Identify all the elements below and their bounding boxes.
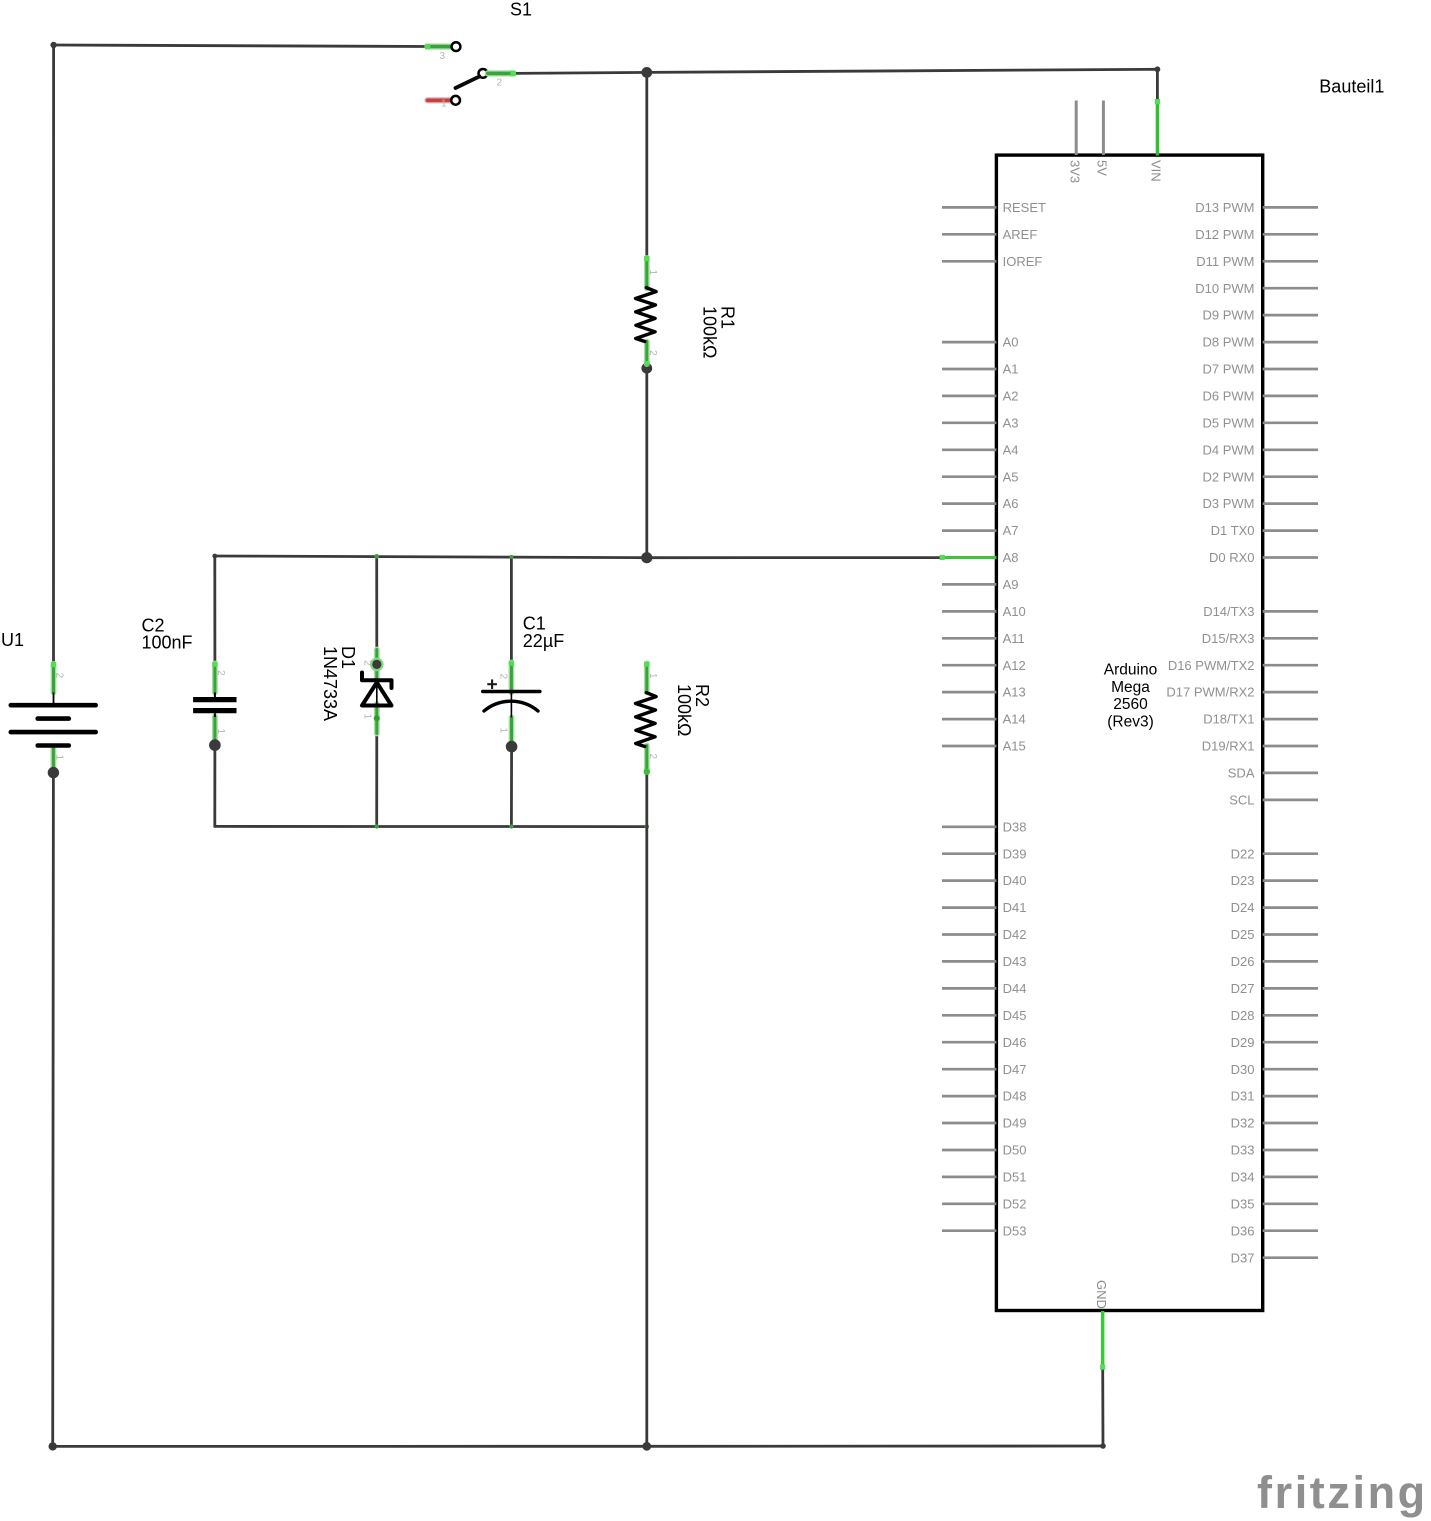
diode D1 pin 1 leg <box>374 704 380 734</box>
pin VIN stub (connected) <box>1155 99 1160 156</box>
node bendpoint at VIN riser <box>1155 66 1161 72</box>
pin label 3V3 <box>1068 160 1083 183</box>
svg-text:1: 1 <box>215 729 226 735</box>
pin D30 <box>1231 1062 1318 1077</box>
pin D51 <box>942 1170 1026 1185</box>
diode D1 pin 2 leg <box>374 650 380 680</box>
svg-text:AREF: AREF <box>1003 227 1038 242</box>
pin D33 <box>1231 1143 1318 1158</box>
svg-text:D12 PWM: D12 PWM <box>1195 227 1254 242</box>
svg-text:D33: D33 <box>1231 1143 1255 1158</box>
svg-text:D8 PWM: D8 PWM <box>1203 335 1255 350</box>
svg-text:A11: A11 <box>1003 631 1025 646</box>
pin D46 <box>942 1035 1026 1050</box>
svg-text:A1: A1 <box>1003 362 1019 377</box>
pin D45 <box>942 1008 1026 1023</box>
wire C2 bottom branch <box>213 745 216 826</box>
svg-text:A2: A2 <box>1003 389 1019 404</box>
pin D53 <box>942 1223 1026 1238</box>
svg-text:A15: A15 <box>1003 739 1026 754</box>
pin D43 <box>942 954 1026 969</box>
svg-text:1N4733A: 1N4733A <box>320 646 340 721</box>
pin label GND <box>1094 1280 1109 1309</box>
svg-text:A4: A4 <box>1003 442 1019 457</box>
node bottom bus junction R2 <box>642 1442 651 1451</box>
pin D27 <box>1231 981 1318 996</box>
wire C2 top branch <box>213 556 216 664</box>
pin SDA <box>1228 766 1318 781</box>
svg-text:1: 1 <box>647 673 658 679</box>
pin D18/TX1 <box>1203 712 1318 727</box>
label Bauteil1 <box>1319 77 1384 97</box>
diode D1 (zener) <box>362 673 392 706</box>
capacitor C2 pin 2 leg <box>212 662 217 693</box>
pin label 5V <box>1095 160 1110 176</box>
svg-text:1: 1 <box>54 755 65 761</box>
switch S1 pin 2 leg <box>488 71 516 76</box>
svg-text:D24: D24 <box>1231 900 1255 915</box>
svg-text:1: 1 <box>441 99 447 110</box>
label C1 22uF <box>523 614 564 651</box>
pin number 2 of C2 <box>215 670 226 676</box>
svg-text:R1: R1 <box>718 306 738 329</box>
svg-text:D36: D36 <box>1231 1223 1255 1238</box>
wire GND riser <box>1101 1367 1104 1446</box>
svg-text:D1 TX0: D1 TX0 <box>1211 523 1255 538</box>
svg-text:D4 PWM: D4 PWM <box>1203 442 1255 457</box>
pin number 1 of R2 <box>647 673 658 679</box>
resistor R2 <box>636 693 657 747</box>
svg-text:D43: D43 <box>1003 954 1027 969</box>
pin label VIN <box>1149 160 1164 182</box>
pin A1 <box>942 362 1019 377</box>
svg-text:A9: A9 <box>1003 577 1019 592</box>
wire R2 bottom long vertical <box>645 772 648 1447</box>
pin D48 <box>942 1089 1026 1104</box>
svg-text:A5: A5 <box>1003 469 1019 484</box>
pin D14/TX3 <box>1203 604 1318 619</box>
wire mid horizontal bus C2 to R-column <box>215 556 647 558</box>
node C2 pin1 junction <box>209 739 221 751</box>
pin A8 (connected, green) <box>940 550 1019 565</box>
pin D34 <box>1231 1170 1318 1185</box>
svg-text:1: 1 <box>498 728 509 734</box>
svg-text:D47: D47 <box>1003 1062 1027 1077</box>
pin D10 PWM <box>1195 281 1318 296</box>
switch S1 pin 1 terminal <box>451 96 460 105</box>
fritzing watermark <box>1257 1467 1428 1518</box>
svg-text:D45: D45 <box>1003 1008 1027 1023</box>
pin D9 PWM <box>1203 308 1319 323</box>
pin number 3 of S1 <box>440 51 446 62</box>
wire battery negative vertical <box>51 773 55 1447</box>
switch S1 pin 3 terminal <box>452 42 461 51</box>
pin D52 <box>942 1196 1026 1211</box>
wire battery positive vertical <box>52 45 55 664</box>
pin D49 <box>942 1116 1026 1131</box>
pin number 1 of battery <box>54 755 65 761</box>
op-amp/IC Bauteil1 Arduino Mega 2560 body <box>996 155 1262 1310</box>
pin number 2 of D1 <box>362 660 373 666</box>
svg-text:D49: D49 <box>1003 1116 1027 1131</box>
svg-text:3V3: 3V3 <box>1068 160 1083 183</box>
battery U1 pin 2 leg <box>51 662 56 693</box>
node junction switch wire / R1 <box>641 67 652 78</box>
pin D4 PWM <box>1203 442 1319 457</box>
pin A10 <box>942 604 1026 619</box>
switch S1 pin 3 leg <box>425 44 451 49</box>
svg-text:2: 2 <box>647 350 658 356</box>
svg-text:D13 PWM: D13 PWM <box>1195 200 1254 215</box>
svg-text:D18/TX1: D18/TX1 <box>1203 712 1254 727</box>
svg-text:D16 PWM/TX2: D16 PWM/TX2 <box>1168 658 1255 673</box>
pin D11 PWM <box>1196 254 1318 269</box>
pin D41 <box>942 900 1026 915</box>
resistor R2 pin 2 leg <box>644 746 650 776</box>
pin D3 PWM <box>1203 496 1319 511</box>
svg-text:U1: U1 <box>1 630 24 650</box>
pin D47 <box>942 1062 1026 1077</box>
wire D1 top branch <box>375 556 378 650</box>
svg-text:fritzing: fritzing <box>1257 1467 1428 1518</box>
pin D31 <box>1231 1089 1318 1104</box>
pin A11 <box>942 631 1025 646</box>
pin D40 <box>942 873 1026 888</box>
node battery negative junction <box>48 767 59 778</box>
pin AREF <box>942 227 1037 242</box>
pin A9 <box>942 577 1019 592</box>
svg-text:100nF: 100nF <box>142 633 193 653</box>
svg-text:D28: D28 <box>1231 1008 1255 1023</box>
svg-text:R2: R2 <box>692 684 712 707</box>
svg-text:A7: A7 <box>1003 523 1019 538</box>
svg-text:1: 1 <box>362 714 373 720</box>
node mid junction R1/R2/bus <box>641 552 652 563</box>
svg-text:D31: D31 <box>1231 1089 1255 1104</box>
pin D12 PWM <box>1195 227 1318 242</box>
svg-text:100kΩ: 100kΩ <box>674 684 694 737</box>
svg-text:D37: D37 <box>1231 1250 1255 1265</box>
wire mid bus to A8 <box>647 556 940 559</box>
label C2 100nF <box>142 616 193 653</box>
svg-text:D7 PWM: D7 PWM <box>1203 362 1255 377</box>
svg-text:A6: A6 <box>1003 496 1019 511</box>
resistor R1 pin 2 leg <box>644 342 649 367</box>
svg-text:D44: D44 <box>1003 981 1027 996</box>
svg-text:D15/RX3: D15/RX3 <box>1202 631 1255 646</box>
pin D19/RX1 <box>1202 739 1318 754</box>
pin D26 <box>1231 954 1318 969</box>
pin D2 PWM <box>1203 469 1319 484</box>
pin D22 <box>1231 846 1318 861</box>
svg-text:D5 PWM: D5 PWM <box>1203 415 1255 430</box>
svg-text:A12: A12 <box>1003 658 1026 673</box>
pin D5 PWM <box>1203 415 1319 430</box>
svg-text:A8: A8 <box>1003 550 1019 565</box>
wire D1 bottom branch <box>375 718 378 826</box>
node bottom-left corner <box>49 1442 57 1450</box>
wire group bottom bus <box>215 825 647 828</box>
svg-text:SDA: SDA <box>1228 766 1255 781</box>
wire C1 top branch <box>510 557 513 663</box>
resistor R1 <box>636 288 657 342</box>
wire C1 bottom branch <box>510 747 513 827</box>
svg-text:GND: GND <box>1094 1280 1109 1309</box>
svg-text:1: 1 <box>647 270 658 276</box>
svg-text:D46: D46 <box>1003 1035 1027 1050</box>
svg-text:2: 2 <box>54 673 65 679</box>
pin A15 <box>942 739 1026 754</box>
pin D8 PWM <box>1203 335 1319 350</box>
capacitor C2 <box>193 693 236 718</box>
node C1 pin1 junction <box>506 741 518 753</box>
svg-text:A14: A14 <box>1003 712 1026 727</box>
node D1 foot on group bus <box>375 824 379 828</box>
node C1 top connect marker <box>509 555 513 559</box>
pin D7 PWM <box>1203 362 1319 377</box>
pin 3V3 stub <box>1075 101 1078 156</box>
svg-text:D50: D50 <box>1003 1143 1027 1158</box>
node D1 pin2 junction <box>370 658 384 672</box>
svg-text:VIN: VIN <box>1149 160 1164 182</box>
svg-text:2560: 2560 <box>1113 696 1148 713</box>
pin number 2 of battery <box>54 673 65 679</box>
label S1 <box>510 0 532 20</box>
wire main bottom bus <box>53 1445 1103 1448</box>
pin number 1 of R1 <box>647 270 658 276</box>
pin D17 PWM/RX2 <box>1166 685 1318 700</box>
pin D35 <box>1231 1196 1318 1211</box>
pin D0 RX0 <box>1209 550 1318 565</box>
svg-text:D27: D27 <box>1231 981 1255 996</box>
pin A4 <box>942 442 1019 457</box>
svg-text:Mega: Mega <box>1111 679 1150 696</box>
pin D39 <box>942 846 1026 861</box>
pin number 1 of C2 <box>215 729 226 735</box>
pin GND stub (connected) <box>1100 1311 1105 1370</box>
pin D50 <box>942 1143 1026 1158</box>
svg-text:D53: D53 <box>1003 1223 1027 1238</box>
svg-text:D32: D32 <box>1231 1116 1255 1131</box>
svg-text:D3 PWM: D3 PWM <box>1203 496 1255 511</box>
pin D29 <box>1231 1035 1318 1050</box>
svg-text:D41: D41 <box>1003 900 1027 915</box>
capacitor C1 pin 1 leg <box>509 718 515 744</box>
svg-text:2: 2 <box>215 670 226 676</box>
pin number 1 of C1 <box>498 728 509 734</box>
pin IOREF <box>942 254 1042 269</box>
svg-text:D29: D29 <box>1231 1035 1255 1050</box>
svg-text:22µF: 22µF <box>523 631 564 651</box>
pin A14 <box>942 712 1026 727</box>
pin D23 <box>1231 873 1318 888</box>
capacitor C1 (electrolytic) <box>483 679 540 717</box>
svg-text:Arduino: Arduino <box>1104 662 1157 679</box>
node top-left corner bendpoint <box>50 42 56 48</box>
svg-text:D17 PWM/RX2: D17 PWM/RX2 <box>1166 685 1254 700</box>
wire R1 top branch <box>645 72 648 258</box>
label D1 1N4733A <box>320 646 358 721</box>
svg-text:D25: D25 <box>1231 927 1255 942</box>
pin D24 <box>1231 900 1318 915</box>
pin SCL <box>1229 793 1318 808</box>
svg-text:D9 PWM: D9 PWM <box>1203 308 1255 323</box>
svg-text:2: 2 <box>498 674 509 680</box>
pin D13 PWM <box>1195 200 1318 215</box>
pin A7 <box>942 523 1019 538</box>
svg-text:D26: D26 <box>1231 954 1255 969</box>
switch S1 pin 2 terminal <box>479 69 488 78</box>
svg-text:D42: D42 <box>1003 927 1027 942</box>
label R2 100k <box>674 684 712 737</box>
svg-text:D1: D1 <box>338 646 358 669</box>
svg-text:D19/RX1: D19/RX1 <box>1202 739 1255 754</box>
resistor R2 pin 1 leg <box>644 662 649 693</box>
pin RESET <box>942 200 1046 215</box>
pin A13 <box>942 685 1026 700</box>
pin D38 <box>942 819 1026 834</box>
pin D36 <box>1231 1223 1318 1238</box>
pin D32 <box>1231 1116 1318 1131</box>
battery U1 pin 1 leg <box>51 747 57 770</box>
resistor R1 pin 1 leg <box>644 256 649 289</box>
pin A3 <box>942 415 1019 430</box>
pin D25 <box>1231 927 1318 942</box>
label R1 100k <box>700 306 738 359</box>
pin A12 <box>942 658 1026 673</box>
pin A0 <box>942 335 1019 350</box>
label U1 <box>1 630 24 650</box>
pin A6 <box>942 496 1019 511</box>
svg-text:D34: D34 <box>1231 1170 1255 1185</box>
node group bus meets R2 column <box>645 824 650 829</box>
pin number 2 of S1 <box>497 78 503 89</box>
svg-text:D39: D39 <box>1003 846 1027 861</box>
wire switch pin 2 to VIN <box>514 69 1157 101</box>
svg-text:D48: D48 <box>1003 1089 1027 1104</box>
wire top-left horizontal to switch pin 3 <box>54 45 430 47</box>
pin D16 PWM/TX2 <box>1168 658 1318 673</box>
svg-text:D38: D38 <box>1003 819 1027 834</box>
svg-text:S1: S1 <box>510 0 532 20</box>
pin D42 <box>942 927 1026 942</box>
svg-text:Bauteil1: Bauteil1 <box>1319 77 1384 97</box>
svg-text:2: 2 <box>647 754 658 760</box>
pin number 2 of C1 <box>498 674 509 680</box>
node bend at GND riser <box>1100 1443 1106 1449</box>
svg-text:D11 PWM: D11 PWM <box>1196 254 1254 269</box>
svg-text:2: 2 <box>497 78 503 89</box>
pin D15/RX3 <box>1202 631 1318 646</box>
svg-text:IOREF: IOREF <box>1003 254 1043 269</box>
node bend at C2 top <box>212 554 217 559</box>
svg-text:A10: A10 <box>1003 604 1026 619</box>
label Arduino Mega 2560 (Rev3) <box>1104 662 1157 731</box>
pin number 1 of D1 <box>362 714 373 720</box>
svg-text:D23: D23 <box>1231 873 1255 888</box>
pin D6 PWM <box>1203 389 1319 404</box>
switch S1 pin 1 leg (unconnected, red) <box>428 97 452 103</box>
svg-text:5V: 5V <box>1095 160 1110 176</box>
pin D28 <box>1231 1008 1318 1023</box>
capacitor C1 pin 2 leg <box>509 661 514 693</box>
svg-text:D30: D30 <box>1231 1062 1255 1077</box>
svg-text:D52: D52 <box>1003 1196 1027 1211</box>
pin D44 <box>942 981 1026 996</box>
pin A5 <box>942 469 1019 484</box>
svg-text:2: 2 <box>362 660 373 666</box>
pin number 1 of S1 <box>441 99 447 110</box>
pin number 2 of R2 <box>647 754 658 760</box>
svg-text:100kΩ: 100kΩ <box>700 306 720 359</box>
svg-text:A13: A13 <box>1003 685 1026 700</box>
battery U1 <box>11 693 96 746</box>
svg-text:D10 PWM: D10 PWM <box>1195 281 1254 296</box>
node D1 top connect marker <box>374 554 379 559</box>
node wire join below R1 <box>641 363 652 374</box>
svg-text:D6 PWM: D6 PWM <box>1203 389 1255 404</box>
svg-text:D22: D22 <box>1231 846 1255 861</box>
svg-text:A0: A0 <box>1003 335 1019 350</box>
svg-text:D14/TX3: D14/TX3 <box>1203 604 1254 619</box>
svg-text:D40: D40 <box>1003 873 1027 888</box>
svg-text:A3: A3 <box>1003 415 1019 430</box>
pin A2 <box>942 389 1019 404</box>
switch S1 lever <box>456 76 480 88</box>
svg-text:RESET: RESET <box>1003 200 1046 215</box>
pin 5V stub <box>1102 101 1105 156</box>
pin D1 TX0 <box>1211 523 1318 538</box>
svg-text:D2 PWM: D2 PWM <box>1203 469 1255 484</box>
svg-text:D0 RX0: D0 RX0 <box>1209 550 1255 565</box>
pin D37 <box>1231 1250 1318 1265</box>
node C1 foot on group bus <box>509 824 513 828</box>
wire R1 bottom to mid junction <box>645 368 648 558</box>
pin number 2 of R1 <box>647 350 658 356</box>
svg-text:D51: D51 <box>1003 1170 1027 1185</box>
capacitor C2 pin 1 leg <box>212 717 218 741</box>
svg-text:(Rev3): (Rev3) <box>1107 713 1154 730</box>
svg-text:3: 3 <box>440 51 446 62</box>
svg-text:D35: D35 <box>1231 1196 1255 1211</box>
svg-text:SCL: SCL <box>1229 793 1254 808</box>
